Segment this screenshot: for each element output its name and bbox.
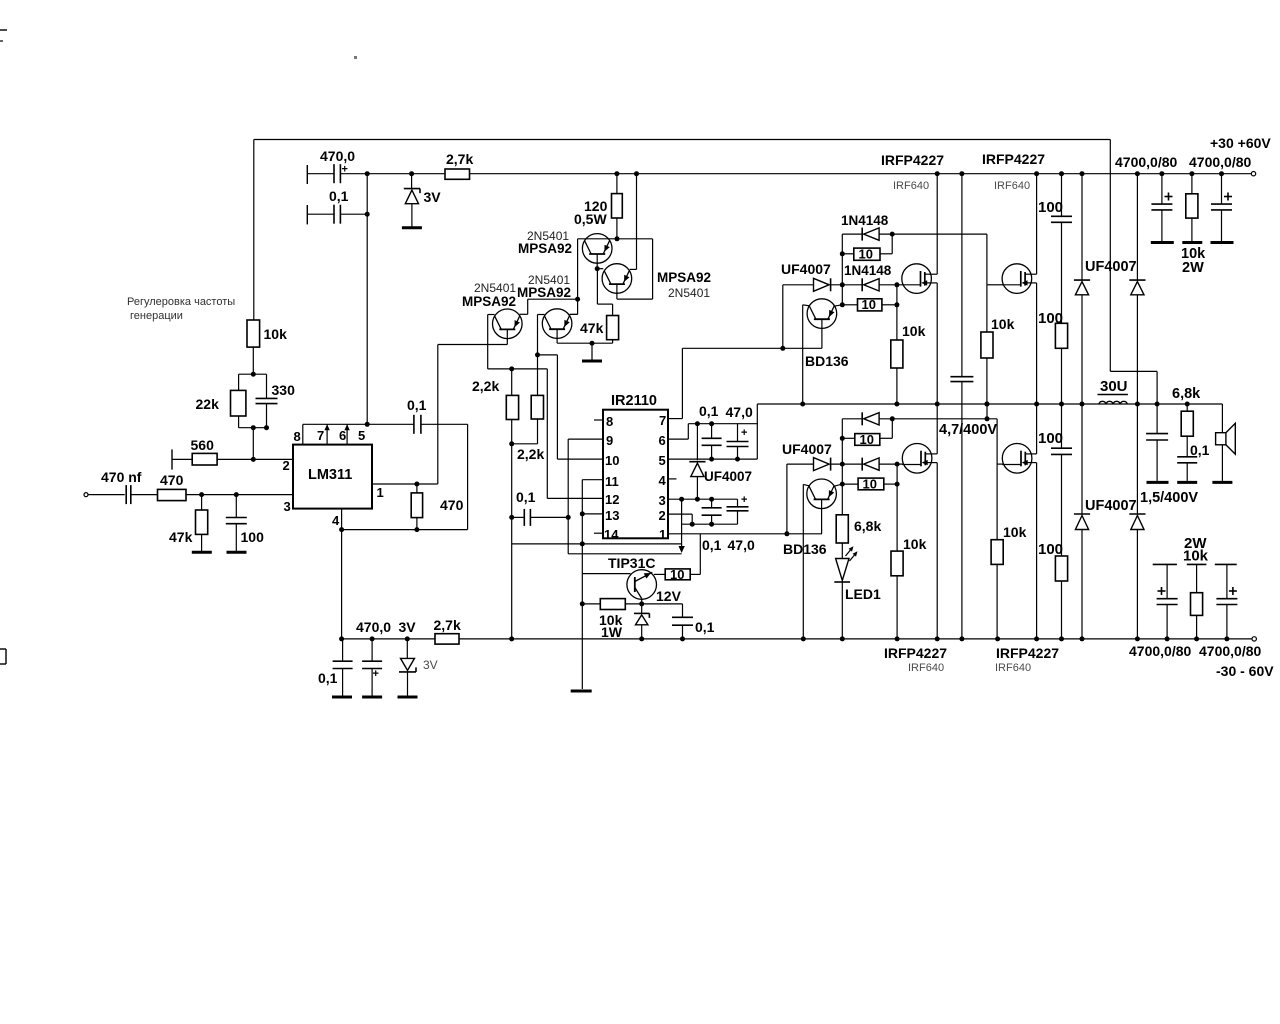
wire gate column low x842: [841, 419, 843, 515]
op-amp U1 LM311 body: [293, 445, 372, 509]
resistor 10 gate lower: [858, 299, 882, 311]
resistor 10k 2W top: [1191, 174, 1193, 194]
svg-text:10: 10: [605, 453, 619, 468]
capacitor 0,1 bottom bias: [342, 639, 344, 661]
pin 10 wire: [557, 458, 603, 460]
svg-text:7: 7: [659, 413, 666, 428]
resistor 10 TIP31C: [665, 569, 690, 580]
diode UF4007 high side gate: [783, 284, 814, 286]
svg-text:12: 12: [605, 492, 619, 507]
svg-text:100: 100: [1038, 310, 1063, 327]
transistor QA MPSA92 left pair 1: [493, 309, 523, 339]
svg-text:470: 470: [160, 472, 184, 488]
svg-text:1N4148: 1N4148: [841, 213, 889, 228]
resistor 10k M3 gate: [896, 464, 898, 551]
svg-text:IRF640: IRF640: [994, 180, 1030, 192]
svg-text:2,2k: 2,2k: [517, 446, 544, 462]
wire BD136 base: [803, 305, 810, 306]
svg-text:4: 4: [659, 473, 667, 488]
ground 0,1 bottom: [332, 696, 352, 699]
wire feedback drop right: [1109, 140, 1111, 372]
wire VCC drop with arrow: [681, 499, 683, 549]
capacitor 4,7/400V snubber: [959, 171, 964, 176]
capacitor 47,0 bootstrap top: [737, 424, 739, 442]
svg-text:0,1: 0,1: [318, 670, 338, 686]
svg-text:3: 3: [284, 499, 291, 514]
capacitor 470,0 bottom bias: [371, 639, 373, 661]
svg-text:10k: 10k: [991, 316, 1015, 332]
wire TIP31C base lead: [582, 573, 630, 575]
wire QA emitter row: [528, 298, 578, 300]
wire M2 drain to rail2: [1034, 171, 1039, 176]
capacitor 47,0 vcc lower: [737, 499, 739, 507]
capacitor 0,1 logic: [509, 515, 514, 520]
svg-text:100: 100: [1038, 430, 1063, 447]
stray mark left edge lower: [0, 648, 6, 650]
svg-text:100: 100: [1038, 541, 1063, 558]
svg-text:100: 100: [241, 529, 265, 545]
capacitor 100 top: [1059, 171, 1064, 176]
capacitor 0,1 top-left: [306, 205, 308, 224]
wire divider bottom junction: [239, 427, 267, 429]
stray dot: [354, 56, 357, 59]
wire QB emitter to x577: [570, 313, 578, 315]
resistor 100 bottom: [1055, 556, 1067, 581]
stray mark top-left edge: [0, 29, 7, 31]
resistor 10k 1W: [600, 599, 625, 610]
IC U2 IR2110 body: [603, 410, 668, 539]
wire divider top junction: [239, 373, 267, 375]
capacitor 1,5/400V output: [1156, 404, 1158, 434]
svg-text:1: 1: [377, 485, 384, 500]
svg-text:+: +: [373, 668, 379, 680]
svg-text:IRFP4227: IRFP4227: [881, 152, 944, 168]
wire Q2 base loop: [616, 284, 618, 299]
svg-text:47k: 47k: [169, 529, 193, 545]
node bottom bias junctions: [339, 636, 344, 641]
svg-text:+: +: [342, 164, 348, 176]
pin 11 wire: [582, 479, 603, 481]
svg-text:4: 4: [332, 513, 340, 528]
node rail2 junctions at 120 resistor: [614, 171, 619, 176]
LED LED1: [841, 543, 843, 559]
pin 8 stub: [594, 419, 603, 421]
svg-text:3V: 3V: [399, 619, 417, 635]
capacitor 0,1 vcc lower: [711, 499, 713, 508]
svg-text:MPSA92: MPSA92: [462, 294, 516, 309]
wire top feedback rail: [254, 139, 1111, 141]
resistor 47k middle: [607, 316, 619, 340]
diode 1N4148 upper: [861, 228, 863, 241]
capacitor 100 input: [235, 495, 237, 518]
LM311 top pin box: [303, 423, 414, 425]
pin 2 wire: [217, 458, 293, 460]
wire M4 source to -rail: [1036, 463, 1038, 639]
wire M2 gate riser: [986, 234, 988, 285]
svg-text:-30 - 60V: -30 - 60V: [1216, 663, 1274, 679]
svg-text:IRF640: IRF640: [893, 180, 929, 192]
wire divider to pin2 net: [252, 428, 254, 460]
resistor 22k: [238, 374, 240, 390]
wire collector row y239: [578, 238, 653, 240]
svg-text:LED1: LED1: [845, 586, 881, 602]
svg-text:0,1: 0,1: [699, 403, 719, 419]
pin 12 wire: [547, 497, 603, 499]
resistor 10k M2 gate-source: [986, 285, 988, 332]
pin 3 wire: [186, 494, 293, 496]
svg-text:10k: 10k: [903, 536, 927, 552]
transistor Q4 BD136 high side: [807, 299, 837, 329]
svg-text:UF4007: UF4007: [781, 261, 831, 277]
capacitor 4700,0/80 top2: [1221, 174, 1223, 204]
ground speaker: [1212, 481, 1232, 484]
svg-text:9: 9: [606, 433, 613, 448]
wire M3 source to -rail: [936, 463, 938, 639]
wire Q1 collector column x577: [577, 239, 579, 299]
svg-text:LM311: LM311: [308, 467, 352, 483]
svg-text:2N5401: 2N5401: [474, 281, 516, 295]
capacitor 0,1 bootstrap top: [711, 424, 713, 439]
svg-text:5: 5: [358, 428, 365, 443]
svg-text:2,7k: 2,7k: [446, 151, 473, 167]
node mid rail junctions: [1059, 402, 1064, 407]
wire BD136 collector: [834, 305, 843, 306]
node gate at M1: [894, 282, 899, 287]
ground 3V bottom: [398, 696, 418, 699]
svg-text:6: 6: [339, 428, 346, 443]
svg-text:2: 2: [283, 458, 290, 473]
svg-text:IRFP4227: IRFP4227: [884, 645, 947, 661]
svg-text:0,1: 0,1: [329, 188, 349, 204]
capacitor 330: [266, 374, 268, 398]
svg-text:13: 13: [605, 508, 619, 523]
resistor 470 at pin1: [416, 484, 418, 493]
wire VB cap row: [688, 423, 758, 425]
svg-text:470,0: 470,0: [356, 619, 391, 635]
svg-text:BD136: BD136: [783, 541, 827, 557]
wire LED to -rail: [841, 582, 843, 639]
wire BD136-2 collector: [833, 484, 842, 486]
svg-text:0,1: 0,1: [407, 397, 427, 413]
wire VS corner to mid rail: [756, 404, 758, 459]
svg-text:10k: 10k: [1183, 548, 1209, 565]
wire negative bias rail left: [342, 638, 435, 640]
wire COM line: [512, 543, 682, 545]
svg-text:2,7k: 2,7k: [434, 617, 461, 633]
node rail2 right junctions: [1159, 171, 1164, 176]
svg-text:BD136: BD136: [805, 353, 849, 369]
svg-text:11: 11: [605, 474, 619, 489]
svg-text:10: 10: [859, 247, 873, 262]
wire M2 source to mid rail: [1036, 283, 1038, 404]
pin 7 wire HO: [668, 418, 682, 420]
svg-text:47,0: 47,0: [726, 404, 753, 420]
svg-text:0,1: 0,1: [516, 489, 536, 505]
svg-text:0,1: 0,1: [702, 537, 722, 553]
input terminal: [84, 493, 88, 497]
wire Q2 emitter to rail2: [630, 268, 637, 270]
resistor 10k M1 gate-source: [896, 285, 898, 340]
resistor 100 top: [1055, 323, 1067, 348]
svg-text:10k: 10k: [1003, 524, 1027, 540]
wire QB collector drop x537: [538, 314, 545, 316]
node gate line low x842: [840, 462, 845, 467]
wire top gate row y234: [842, 233, 862, 235]
capacitor 100 bottom: [1061, 404, 1063, 448]
resistor 10 gate upper: [854, 248, 880, 260]
transistor M2 IRFP4227 top-right: [1002, 264, 1032, 294]
svg-text:UF4007: UF4007: [704, 469, 752, 484]
resistor 10k feedback: [247, 320, 260, 347]
svg-text:10: 10: [862, 297, 876, 312]
svg-text:560: 560: [191, 437, 215, 453]
wire LIN row y369: [488, 368, 548, 370]
wire Vcc column down to LM311 pins: [366, 174, 368, 425]
wire QA collector drop: [488, 314, 495, 316]
wire BD136-2 base column to -rail: [802, 484, 804, 639]
wire input: [88, 494, 125, 496]
transistor Q1 MPSA92 top middle: [582, 234, 612, 264]
wire QA base lead down: [506, 329, 508, 344]
wire LM311 right loop down: [467, 424, 469, 529]
pin 4 stub: [668, 478, 677, 480]
wire M3 drain to mid rail: [936, 404, 938, 454]
wire Q1 base to 47k jog: [596, 269, 598, 304]
wire 10k to divider junction: [252, 347, 254, 374]
terminal +30+60V: [1251, 172, 1255, 176]
svg-text:8: 8: [294, 429, 301, 444]
svg-text:MPSA92: MPSA92: [517, 285, 571, 300]
resistor 6,8k LED feed: [836, 515, 848, 543]
diode UF4007 rectifier A top: [1080, 171, 1085, 176]
zener diode 3V top: [409, 171, 414, 176]
resistor 10k M4 gate: [991, 540, 1003, 565]
resistor 2,7k bottom: [435, 634, 459, 644]
svg-text:22k: 22k: [196, 396, 220, 412]
wire collector feed row: [568, 553, 681, 555]
wire base column x582: [581, 480, 583, 574]
wire vcc cap bottom row: [682, 523, 738, 525]
wire M4 gate riser: [996, 419, 998, 540]
wire +V rail (rail2): [367, 173, 445, 175]
ground zobel: [1177, 481, 1197, 484]
svg-text:1N4148: 1N4148: [844, 263, 892, 278]
svg-text:3: 3: [659, 493, 666, 508]
wire UF4007 riser: [782, 285, 784, 349]
capacitor 0,1 zobel: [1186, 436, 1188, 457]
wire gate column x842: [841, 234, 843, 305]
svg-text:2N5401: 2N5401: [668, 286, 710, 300]
ground 470,0 bottom: [362, 696, 382, 699]
svg-text:12V: 12V: [656, 588, 682, 604]
pin 9 wire: [568, 438, 603, 440]
svg-text:14: 14: [604, 527, 619, 542]
wire VDD column x568: [567, 439, 569, 554]
capacitor 4700,0/80 top1: [1161, 174, 1163, 204]
svg-text:+: +: [741, 494, 747, 506]
wire HIN row to pin10 riser: [538, 354, 558, 356]
svg-text:+30 +60V: +30 +60V: [1210, 135, 1271, 151]
svg-text:1W: 1W: [601, 624, 623, 640]
svg-text:330: 330: [272, 382, 296, 398]
inductor 30U: [1099, 401, 1106, 404]
wire BD136 emitter to HO: [821, 319, 823, 348]
zener diode 3V bottom: [406, 639, 408, 659]
resistor 10 gate low lower: [858, 478, 884, 490]
wire QB base lead down to gnd row: [556, 329, 558, 343]
ground 1,5 cap: [1147, 481, 1169, 484]
svg-text:470,0: 470,0: [320, 148, 355, 164]
transistor M4 IRFP4227 bottom-right: [1002, 444, 1032, 474]
diode UF4007 rectifier B top: [1135, 171, 1140, 176]
svg-text:3V: 3V: [423, 658, 438, 672]
diode 1N4148 low upper: [861, 412, 863, 425]
capacitor 0,1 at 12V: [672, 616, 693, 618]
node gate at M3: [895, 462, 900, 467]
resistor 470 input: [158, 489, 187, 500]
svg-text:470 nf: 470 nf: [101, 469, 142, 485]
wire 10 up to LO line: [699, 534, 701, 575]
svg-text:6,8k: 6,8k: [854, 518, 881, 534]
diode UF4007 bootstrap: [696, 424, 698, 461]
wire pin12 riser x547: [546, 369, 548, 499]
pin 1 wire: [372, 483, 438, 485]
svg-text:6,8k: 6,8k: [1172, 386, 1201, 402]
wire pin4 ground row: [342, 529, 468, 531]
transistor QB MPSA92 left pair 2: [542, 309, 572, 339]
wire mid-rail tie to row418: [986, 404, 988, 419]
svg-text:0,1: 0,1: [695, 619, 715, 635]
speaker: [1221, 404, 1223, 433]
stub terminal for 560: [172, 458, 192, 460]
diode 1N4148 low lower: [861, 458, 863, 471]
wire M1 source to mid rail: [936, 283, 938, 404]
svg-text:4700,0/80: 4700,0/80: [1189, 154, 1251, 170]
pin 13 wire: [582, 513, 603, 515]
wire BD136 base column to VS: [802, 305, 804, 404]
resistor 120 0,5W: [616, 174, 618, 194]
wire 2,2k bottoms tie: [512, 443, 538, 445]
svg-text:IR2110: IR2110: [611, 393, 657, 409]
transistor Q3 TIP31C: [627, 570, 657, 600]
svg-text:47,0: 47,0: [728, 537, 755, 553]
svg-text:TIP31C: TIP31C: [608, 555, 655, 571]
wire base-collector tie row y344.5: [438, 344, 508, 346]
transistor M3 IRFP4227 bottom-left: [902, 444, 932, 474]
svg-text:0,1: 0,1: [1190, 442, 1210, 458]
resistor 10 gate low upper: [855, 434, 880, 446]
ground for 47k: [192, 551, 212, 554]
capacitor 4700,0/80 bottom1: [1153, 563, 1177, 565]
svg-text:100: 100: [1038, 199, 1063, 216]
svg-text:UF4007: UF4007: [1085, 498, 1137, 514]
svg-text:2,2k: 2,2k: [472, 378, 499, 394]
svg-text:47k: 47k: [580, 320, 604, 336]
node Vcc to pin box: [365, 422, 370, 427]
svg-text:+: +: [741, 427, 747, 439]
wire LO riser x786.9: [786, 464, 788, 534]
svg-text:10k: 10k: [264, 326, 288, 342]
svg-text:5: 5: [659, 453, 666, 468]
svg-text:1: 1: [659, 527, 666, 542]
resistor 2,7k top: [445, 169, 470, 179]
resistor 10k 2W bottom: [1187, 563, 1207, 565]
svg-text:Регулеровка частоты: Регулеровка частоты: [127, 296, 235, 308]
wire TIP31C emitter: [641, 599, 643, 604]
pin 6 wire VB: [668, 438, 688, 440]
wire cap to resistor: [131, 494, 158, 496]
capacitor 470 nf input: [125, 485, 127, 504]
wire Q1 base lead: [596, 254, 598, 269]
svg-text:MPSA92: MPSA92: [657, 270, 711, 285]
node gate line x842: [840, 282, 845, 287]
capacitor 470,0 electrolytic top-left: [306, 165, 308, 184]
pin 4 wire down to negative bias rail: [341, 509, 343, 639]
terminal -30-60V: [1252, 637, 1256, 641]
svg-text:4700,0/80: 4700,0/80: [1129, 643, 1191, 659]
svg-text:UF4007: UF4007: [782, 441, 832, 457]
wire emitter row to 0,1: [642, 603, 683, 605]
svg-text:3V: 3V: [424, 189, 442, 205]
node junction caps to rail2: [365, 171, 370, 176]
svg-text:8: 8: [606, 414, 613, 429]
svg-text:IRF640: IRF640: [995, 662, 1031, 674]
svg-text:470: 470: [440, 497, 464, 513]
svg-text:7: 7: [317, 428, 324, 443]
transistor M1 IRFP4227 top-left: [902, 264, 932, 294]
ground for 100: [227, 551, 247, 554]
wire M4 drain to mid rail: [1036, 404, 1038, 454]
svg-text:2: 2: [659, 508, 666, 523]
svg-text:10: 10: [863, 476, 877, 491]
diode UF4007 rectifier B bottom: [1136, 404, 1138, 514]
resistor 2,2k first: [511, 369, 513, 396]
wire 2,2k net down to 0,1: [511, 444, 513, 639]
zener diode 12V: [641, 604, 643, 614]
ground main logic: [571, 690, 592, 693]
transistor Q5 BD136 low side: [807, 479, 837, 509]
svg-text:10: 10: [670, 567, 684, 582]
resistor 2,2k second: [531, 395, 543, 419]
svg-text:6: 6: [659, 433, 666, 448]
pin 5 wire VS: [668, 458, 757, 460]
ground middle: [591, 343, 593, 360]
pin 14 stub: [594, 532, 603, 534]
svg-text:10k: 10k: [902, 323, 926, 339]
wire -V rail (bottom): [459, 638, 1252, 640]
capacitor 0,1 at LM311 top: [413, 415, 415, 434]
wire base-gnd row y343: [557, 342, 613, 344]
svg-text:MPSA92: MPSA92: [518, 241, 572, 256]
transistor Q2 MPSA92 second middle: [602, 264, 632, 294]
ground for 3V zener: [402, 226, 422, 229]
svg-text:10: 10: [860, 432, 874, 447]
svg-text:4700,0/80: 4700,0/80: [1115, 154, 1177, 170]
svg-text:0,5W: 0,5W: [574, 211, 607, 227]
svg-text:4700,0/80: 4700,0/80: [1199, 643, 1261, 659]
svg-text:2W: 2W: [1182, 260, 1204, 276]
wire M1 drain to rail2: [935, 171, 940, 176]
svg-text:4,7/400V: 4,7/400V: [939, 422, 997, 438]
capacitor 4700,0/80 bottom2: [1215, 563, 1237, 565]
wire top gate row low y418.8: [842, 418, 862, 420]
svg-text:IRF640: IRF640: [908, 662, 944, 674]
wire BD136-2 base: [803, 484, 809, 486]
wire BD136-2 emitter to LO: [821, 499, 823, 534]
wire mid rail VS: [757, 403, 1222, 405]
svg-text:1,5/400V: 1,5/400V: [1140, 490, 1198, 506]
svg-text:IRFP4227: IRFP4227: [982, 151, 1045, 167]
